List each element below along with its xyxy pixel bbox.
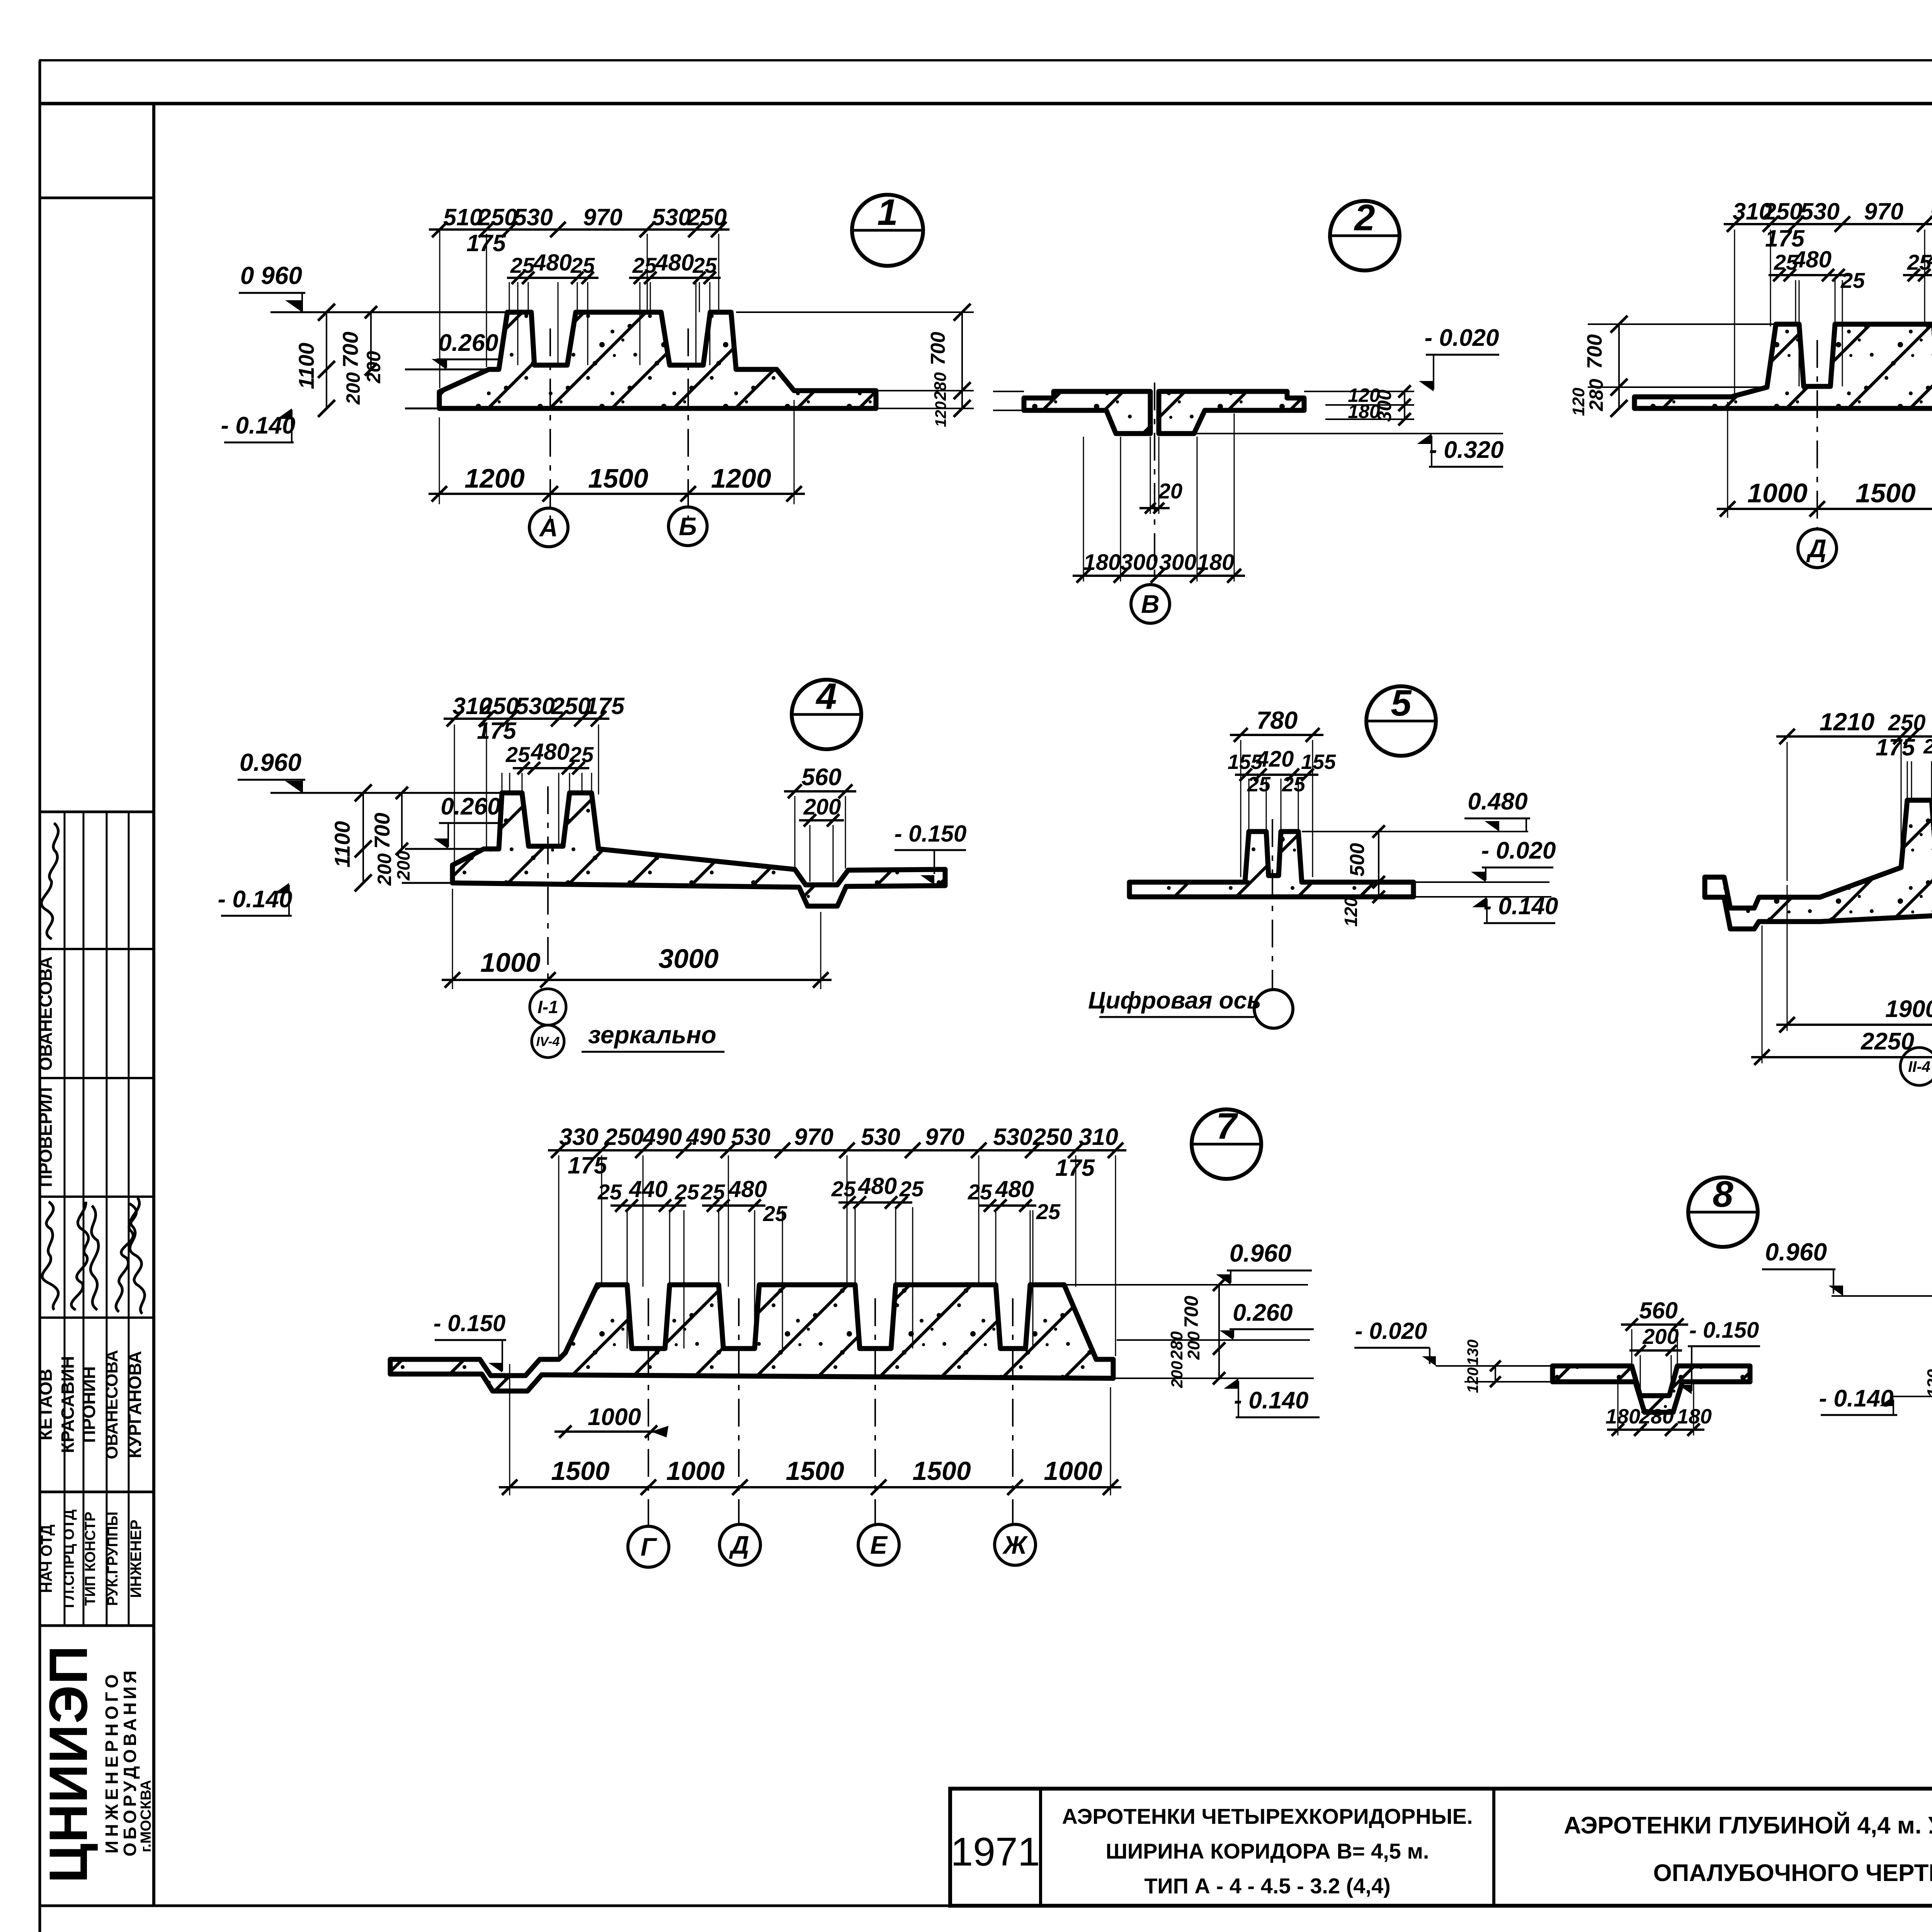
svg-text:200: 200	[342, 372, 364, 405]
svg-text:530: 530	[652, 204, 691, 230]
svg-text:ЦНИИЭП: ЦНИИЭП	[38, 1645, 99, 1883]
svg-text:1971: 1971	[951, 1830, 1040, 1874]
svg-text:Д: Д	[729, 1531, 749, 1559]
svg-text:Б: Б	[679, 512, 697, 541]
sidebar signature band A strip1	[41, 823, 58, 939]
svg-text:480: 480	[531, 739, 570, 765]
svg-text:280: 280	[931, 372, 950, 401]
svg-text:1500: 1500	[912, 1456, 971, 1486]
svg-text:300: 300	[1121, 550, 1158, 575]
section 4 node circle I-1	[530, 989, 566, 1025]
page frame top inner line	[39, 102, 1932, 105]
section 7 concrete profile	[390, 1285, 1113, 1391]
svg-text:0.480: 0.480	[1468, 788, 1527, 815]
svg-text:1100: 1100	[330, 821, 354, 867]
section 2 axis circle V	[1131, 585, 1170, 623]
svg-text:2250: 2250	[1861, 1028, 1914, 1055]
section 1 axis circle B	[668, 507, 707, 546]
section 2 axis B dashed line	[1154, 383, 1155, 584]
svg-text:480: 480	[533, 250, 572, 276]
svg-text:ОВАНЕСОВА: ОВАНЕСОВА	[36, 956, 56, 1071]
svg-text:530: 530	[515, 693, 555, 719]
svg-text:0 960: 0 960	[240, 262, 302, 289]
svg-text:АЭРОТЕНКИ ЧЕТЫРЕХКОРИДОРНЫЕ.: АЭРОТЕНКИ ЧЕТЫРЕХКОРИДОРНЫЕ.	[1062, 1804, 1473, 1828]
section 7 axis circle G	[628, 1526, 669, 1567]
section 7 top dimension row 1	[548, 1149, 1126, 1151]
svg-text:180: 180	[1083, 550, 1121, 575]
svg-text:- 0.150: - 0.150	[1689, 1318, 1759, 1343]
svg-text:280: 280	[1167, 1331, 1186, 1360]
section 4 left vertical dims	[362, 793, 364, 883]
svg-text:- 0.020: - 0.020	[1355, 1318, 1427, 1344]
svg-text:25: 25	[831, 1177, 856, 1201]
svg-text:700: 700	[1583, 334, 1606, 369]
svg-text:970: 970	[925, 1124, 964, 1150]
svg-text:0.960: 0.960	[1765, 1238, 1827, 1266]
svg-text:- 0.320: - 0.320	[1429, 437, 1503, 463]
svg-text:1: 1	[877, 192, 898, 233]
svg-text:530: 530	[1930, 198, 1932, 224]
svg-text:200: 200	[393, 850, 413, 881]
section 5 dim 780	[1230, 734, 1323, 736]
svg-text:175: 175	[1876, 734, 1915, 760]
section 6 top dimension row 1	[1776, 735, 1932, 738]
svg-text:250: 250	[1763, 198, 1803, 224]
svg-text:530: 530	[861, 1124, 900, 1150]
svg-text:- 0.150: - 0.150	[895, 821, 967, 847]
svg-text:0.260: 0.260	[440, 793, 500, 820]
section 1 top dimension row 2	[507, 277, 599, 279]
section 4 concrete profile	[452, 793, 945, 906]
svg-text:КРАСАВИН: КРАСАВИН	[58, 1356, 78, 1453]
svg-text:700: 700	[1180, 1296, 1202, 1328]
svg-text:780: 780	[1257, 706, 1298, 734]
section 4 detail circle	[792, 680, 861, 749]
svg-text:250: 250	[479, 693, 519, 719]
svg-text:700: 700	[927, 332, 949, 366]
section 3 extension lines top	[1734, 230, 1735, 394]
svg-text:8: 8	[1713, 1173, 1733, 1215]
svg-text:Ж: Ж	[1002, 1531, 1028, 1559]
svg-text:II-4: II-4	[1908, 1058, 1930, 1075]
svg-text:25: 25	[569, 742, 594, 767]
svg-text:25: 25	[968, 1180, 992, 1204]
sidebar column dividers	[64, 812, 66, 1626]
section 3 top dimension row 2	[1769, 274, 1849, 276]
svg-text:25: 25	[763, 1201, 787, 1226]
svg-text:420: 420	[1256, 747, 1294, 772]
section 8 detail circle	[1688, 1177, 1758, 1247]
svg-text:480: 480	[655, 250, 694, 276]
svg-text:1500: 1500	[786, 1456, 844, 1486]
svg-text:25: 25	[692, 253, 717, 277]
section 7 axis circle D	[719, 1524, 760, 1565]
svg-text:970: 970	[794, 1124, 833, 1150]
svg-text:180: 180	[1197, 550, 1235, 575]
section 7 axis Zh dashed line	[1012, 1298, 1014, 1524]
page frame top outer line	[39, 59, 1932, 61]
sidebar right edge	[152, 104, 155, 1906]
svg-text:НАЧ ОТД: НАЧ ОТД	[38, 1525, 55, 1593]
svg-text:1100: 1100	[294, 343, 318, 389]
svg-text:1210: 1210	[1820, 708, 1874, 736]
section 8 bottom dims 180 280 180	[1607, 1429, 1704, 1431]
svg-text:490: 490	[685, 1124, 726, 1150]
svg-text:120: 120	[1464, 1367, 1481, 1393]
svg-text:300: 300	[1159, 550, 1197, 575]
section 8 slab with drainage recess	[1553, 1366, 1750, 1412]
section 2 slab right part	[1159, 391, 1304, 434]
section 5 slab with joint upstand	[1129, 832, 1413, 897]
svg-text:700: 700	[370, 813, 394, 849]
sidebar divider y512	[40, 197, 154, 199]
svg-text:200: 200	[1184, 1331, 1203, 1360]
section 2 left level lines	[993, 391, 1024, 392]
svg-text:480: 480	[995, 1176, 1034, 1202]
section 5 dim 155 420 155	[1235, 774, 1318, 776]
svg-text:250: 250	[1032, 1124, 1072, 1150]
section 8 left thickness dims	[1495, 1366, 1496, 1382]
svg-text:I-1: I-1	[537, 997, 558, 1017]
svg-text:1200: 1200	[464, 463, 525, 493]
svg-text:700: 700	[338, 332, 362, 367]
sidebar divider y2101	[40, 811, 154, 813]
section 2 slab left part	[1024, 391, 1150, 434]
section 4 extension lines top	[454, 724, 455, 864]
svg-text:ОБОРУДОВАНИЯ: ОБОРУДОВАНИЯ	[120, 1667, 140, 1856]
svg-text:120: 120	[1924, 1369, 1932, 1398]
svg-text:480: 480	[1793, 247, 1832, 272]
section 6 concrete profile	[1705, 800, 1932, 929]
sidebar divider y3097	[40, 1196, 154, 1198]
svg-text:25: 25	[597, 1180, 622, 1204]
svg-text:Д: Д	[1806, 534, 1827, 563]
svg-text:25: 25	[505, 742, 530, 767]
svg-text:250: 250	[478, 204, 517, 230]
svg-text:25: 25	[1282, 773, 1306, 796]
sidebar bottom line extended right	[40, 1905, 1932, 1907]
svg-text:25: 25	[570, 253, 595, 277]
svg-text:1000: 1000	[666, 1456, 724, 1486]
section 3 axis D dashed line	[1816, 340, 1818, 529]
section 1 left vertical dims	[326, 312, 327, 408]
section 4 top dimension row 1	[444, 718, 609, 720]
section 3 axis circle D	[1798, 529, 1837, 568]
svg-text:200: 200	[803, 794, 841, 820]
svg-text:- 0.140: - 0.140	[1819, 1385, 1893, 1412]
svg-text:0.960: 0.960	[240, 748, 301, 776]
svg-text:530: 530	[731, 1124, 770, 1150]
svg-text:IV-4: IV-4	[536, 1034, 560, 1049]
svg-text:530: 530	[514, 204, 553, 230]
section 4 bottom dimension line	[442, 979, 832, 981]
svg-text:25: 25	[1247, 773, 1271, 796]
svg-text:440: 440	[629, 1176, 668, 1202]
svg-text:250: 250	[1888, 710, 1926, 735]
svg-text:480: 480	[728, 1176, 767, 1202]
svg-text:5: 5	[1391, 682, 1412, 724]
svg-text:180: 180	[1605, 1405, 1640, 1428]
svg-text:1500: 1500	[588, 463, 648, 493]
svg-text:1000: 1000	[480, 947, 541, 978]
svg-text:ОВАНЕСОВА: ОВАНЕСОВА	[102, 1350, 121, 1459]
svg-text:В: В	[1141, 590, 1160, 618]
svg-text:330: 330	[559, 1124, 599, 1150]
section 7 top dimension row 2	[611, 1204, 686, 1207]
svg-text:Цифровая ось: Цифровая ось	[1088, 987, 1261, 1014]
section 6 node circle II-4	[1900, 1048, 1932, 1085]
section 3 left side lines and dims	[1588, 323, 1776, 325]
svg-text:4: 4	[815, 676, 837, 717]
section 7 axis E dashed line	[874, 1298, 876, 1524]
section 3 concrete profile	[1634, 324, 1932, 408]
svg-text:0.260: 0.260	[1233, 1299, 1293, 1326]
svg-text:25: 25	[1036, 1199, 1061, 1224]
svg-text:280: 280	[1585, 379, 1607, 412]
svg-text:0.960: 0.960	[1230, 1239, 1291, 1267]
svg-text:560: 560	[1639, 1298, 1678, 1323]
svg-text:480: 480	[858, 1173, 897, 1199]
svg-text:25: 25	[675, 1180, 699, 1204]
sidebar signature band D all strips	[42, 1202, 58, 1310]
svg-text:- 0.020: - 0.020	[1424, 325, 1499, 351]
svg-text:РУК.ГРУППЫ: РУК.ГРУППЫ	[105, 1512, 121, 1606]
svg-text:200: 200	[374, 853, 395, 886]
svg-text:зеркально: зеркально	[588, 1021, 716, 1049]
section 1 bottom dimension line	[429, 493, 805, 495]
svg-text:510: 510	[443, 204, 483, 230]
svg-text:ПРОНИН: ПРОНИН	[79, 1366, 99, 1443]
page frame left border	[39, 60, 41, 1932]
svg-text:25: 25	[701, 1180, 725, 1204]
svg-text:530: 530	[1800, 198, 1840, 224]
svg-text:ГЛ.СПРЦ ОТД: ГЛ.СПРЦ ОТД	[61, 1509, 77, 1608]
svg-text:ТИП А - 4 - 4.5 - 3.2 (4,4): ТИП А - 4 - 4.5 - 3.2 (4,4)	[1144, 1874, 1391, 1898]
section 7 axis G dashed line	[648, 1298, 649, 1526]
svg-text:155: 155	[1301, 750, 1336, 774]
section 7 axis circle Zh	[995, 1524, 1036, 1565]
svg-text:25: 25	[510, 253, 535, 277]
sidebar divider y2456	[40, 948, 154, 950]
section 7 right vertical dims	[1218, 1285, 1220, 1378]
svg-text:ТИП КОНСТР: ТИП КОНСТР	[82, 1512, 99, 1606]
section 7 bottom dimension line	[499, 1486, 1121, 1488]
svg-text:280: 280	[1639, 1405, 1674, 1428]
section 8 dim 200	[1629, 1349, 1682, 1352]
sidebar divider y3410	[40, 1316, 154, 1319]
svg-text:ИНЖЕНЕР: ИНЖЕНЕР	[128, 1520, 145, 1598]
svg-text:250: 250	[604, 1124, 644, 1150]
svg-text:500: 500	[1346, 843, 1369, 877]
section 1 axis circle A	[529, 508, 568, 547]
svg-text:970: 970	[1864, 198, 1903, 224]
svg-text:490: 490	[642, 1124, 682, 1150]
section 7 small dim 1000	[554, 1430, 662, 1433]
svg-text:0.260: 0.260	[438, 330, 498, 356]
section 2 right thickness dims	[1304, 391, 1414, 392]
section 4 axis dashed line	[547, 786, 549, 987]
svg-text:1000: 1000	[588, 1404, 641, 1430]
section 1 right side level lines	[736, 311, 974, 313]
svg-text:КЕТАОВ: КЕТАОВ	[36, 1369, 56, 1440]
svg-text:г.МОСКВА: г.МОСКВА	[138, 1780, 154, 1852]
section 8 dim 560	[1621, 1323, 1688, 1326]
section 5 axis circle empty	[1254, 990, 1293, 1028]
svg-text:25: 25	[632, 253, 657, 277]
svg-text:А: А	[539, 513, 558, 542]
section 4 node circle IV-4	[532, 1025, 564, 1058]
svg-text:300: 300	[1374, 389, 1395, 422]
svg-text:ПРОВЕРИЛ: ПРОВЕРИЛ	[36, 1087, 56, 1187]
svg-text:200: 200	[363, 351, 384, 384]
section 6 bottom dimension rows	[1776, 1024, 1932, 1026]
section 1 concrete profile	[439, 312, 876, 408]
svg-text:250: 250	[687, 204, 727, 230]
svg-text:200: 200	[1168, 1361, 1186, 1388]
section 5 detail circle	[1366, 686, 1436, 756]
section 2 bottom dimension row	[1073, 575, 1245, 577]
section 7 axis D dashed line	[738, 1298, 740, 1524]
sidebar divider y4207	[40, 1624, 154, 1627]
svg-text:1900: 1900	[1885, 996, 1932, 1022]
section 6 extension lines top	[1787, 742, 1788, 881]
svg-text:25: 25	[899, 1177, 924, 1201]
svg-text:2: 2	[1354, 197, 1375, 238]
svg-text:Е: Е	[870, 1531, 888, 1559]
svg-text:175: 175	[585, 693, 625, 719]
sidebar divider y2790	[40, 1077, 154, 1079]
section 7 detail circle	[1192, 1109, 1261, 1179]
svg-text:- 0.020: - 0.020	[1481, 837, 1556, 864]
svg-text:970: 970	[583, 204, 622, 230]
section 4 dim 200 over recess	[799, 819, 844, 821]
svg-text:3000: 3000	[658, 944, 719, 974]
svg-text:175: 175	[477, 718, 517, 744]
svg-text:480: 480	[1927, 247, 1932, 272]
section 1 axis A dashed line	[549, 328, 551, 520]
svg-text:КУРГАНОВА: КУРГАНОВА	[125, 1351, 145, 1458]
section 2 detail circle	[1330, 201, 1400, 270]
title block outline	[950, 1789, 1932, 1906]
section 1 extension lines top	[439, 230, 440, 388]
svg-text:7: 7	[1216, 1105, 1238, 1147]
svg-text:130: 130	[1464, 1340, 1481, 1366]
svg-text:1200: 1200	[711, 463, 771, 493]
section 3 top dimension row 1	[1724, 223, 1932, 225]
svg-text:560: 560	[801, 764, 841, 791]
svg-text:200: 200	[1642, 1324, 1679, 1349]
svg-text:ИНЖЕНЕРНОГО: ИНЖЕНЕРНОГО	[102, 1670, 122, 1853]
svg-text:530: 530	[993, 1124, 1032, 1150]
svg-text:310: 310	[1079, 1124, 1118, 1150]
svg-text:1000: 1000	[1747, 478, 1808, 508]
sidebar divider y3861	[40, 1491, 154, 1493]
svg-text:ОПАЛУБОЧНОГО ЧЕРТЕЖА ДНИЩА.: ОПАЛУБОЧНОГО ЧЕРТЕЖА ДНИЩА.	[1653, 1860, 1932, 1886]
section 1 detail circle	[852, 195, 923, 266]
svg-text:ШИРИНА КОРИДОРА В= 4,5 м.: ШИРИНА КОРИДОРА В= 4,5 м.	[1106, 1839, 1429, 1863]
svg-text:1000: 1000	[1044, 1456, 1102, 1486]
section 5 right vertical dims	[1378, 832, 1379, 897]
section 4 top dimension row 2	[513, 767, 589, 769]
section 7 axis circle E	[858, 1524, 899, 1565]
svg-text:Г: Г	[641, 1532, 657, 1561]
section 4 dim 560 over recess	[784, 790, 856, 793]
svg-text:180: 180	[1677, 1405, 1712, 1428]
section 1 axis B dashed line	[687, 328, 689, 520]
svg-text:- 0.150: - 0.150	[434, 1310, 506, 1336]
section 1 top dimension row 1	[429, 228, 730, 231]
svg-text:25: 25	[1840, 268, 1865, 293]
svg-text:1500: 1500	[1855, 478, 1916, 508]
svg-text:- 0.140: - 0.140	[1234, 1387, 1308, 1414]
section 3 bottom dimension line	[1717, 508, 1932, 510]
svg-text:120: 120	[932, 401, 949, 427]
svg-text:АЭРОТЕНКИ ГЛУБИНОЙ 4,4 м. УЗЛ: АЭРОТЕНКИ ГЛУБИНОЙ 4,4 м. УЗЛЫ 1÷9 РАЗРЕ…	[1564, 1812, 1932, 1839]
section 7 extension lines top	[558, 1155, 560, 1356]
svg-text:120: 120	[1341, 897, 1361, 927]
svg-text:20: 20	[1158, 479, 1182, 503]
svg-text:1500: 1500	[551, 1456, 609, 1486]
svg-text:25: 25	[1923, 735, 1932, 758]
section 5 axis dashed line	[1272, 819, 1273, 990]
svg-text:120: 120	[1569, 388, 1588, 416]
